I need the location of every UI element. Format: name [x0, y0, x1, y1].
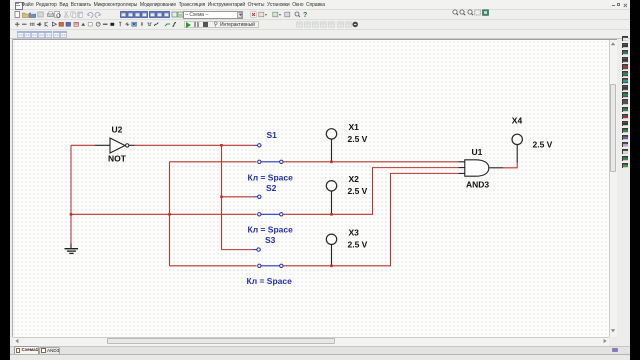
wire S3 top stub: [222, 249, 254, 251]
svg-text:U1: U1: [472, 147, 483, 157]
NOT gate U2: [110, 138, 129, 153]
svg-text:U2: U2: [112, 125, 123, 135]
svg-text:S2: S2: [266, 183, 277, 193]
probe X2: [326, 181, 336, 214]
black side bars: [0, 0, 10, 360]
pin AND output: [489, 167, 503, 169]
switch S3: [253, 248, 283, 268]
wire NOT input: [71, 144, 95, 146]
svg-text:X3: X3: [349, 227, 360, 237]
svg-text:S1: S1: [267, 130, 278, 140]
switch S2: [254, 195, 283, 216]
zoom cluster: [0, 0, 640, 1]
instruments toolbar right: [0, 0, 640, 1]
wire ground rail vertical: [70, 145, 72, 243]
status strip: [10, 354, 630, 360]
vertical scrollbar: [609, 40, 618, 338]
junction dots: [70, 144, 333, 267]
node mid rail cross: [168, 213, 171, 216]
wire S1 bottom left: [170, 161, 257, 163]
svg-text:2.5 V: 2.5 V: [348, 186, 368, 196]
wire mid vertical branch x169: [169, 162, 171, 266]
svg-text:2.5 V: 2.5 V: [348, 239, 368, 249]
pin AND in1: [459, 161, 465, 163]
switch S1: [254, 144, 283, 164]
tab 1 active: [14, 346, 39, 354]
window buttons: [612, 5, 616, 6]
wire NOT output to S1: [135, 144, 254, 146]
canvas background with dot grid: [13, 40, 609, 338]
probe X4: [512, 134, 522, 163]
ground: [65, 243, 79, 253]
svg-text:X4: X4: [512, 116, 523, 126]
svg-text:2.5 V: 2.5 V: [348, 134, 368, 144]
probe X1: [326, 129, 336, 161]
toolbar row 3: [10, 30, 630, 39]
AND gate U1: [465, 160, 489, 176]
node X2: [330, 213, 333, 216]
svg-text:2.5 V: 2.5 V: [533, 140, 553, 150]
canvas top border: [13, 39, 617, 40]
wire S2 row to AND: [283, 168, 459, 215]
svg-text:Кл = Space: Кл = Space: [248, 225, 294, 235]
wire S1 row to AND: [283, 161, 459, 163]
wire vertical branch x221: [221, 145, 223, 249]
wire ground rail horizontal: [71, 213, 257, 215]
horizontal scrollbar: [13, 337, 609, 346]
svg-text:X2: X2: [349, 174, 360, 184]
pin NOT output black: [129, 144, 135, 146]
pin NOT input black: [95, 144, 110, 146]
svg-text:S3: S3: [265, 235, 276, 245]
node ground rail left: [70, 213, 73, 216]
node X3: [330, 265, 333, 268]
tab 2: [39, 347, 60, 355]
toolbar row 1: [10, 10, 630, 20]
node X1: [330, 161, 333, 164]
svg-text:AND3: AND3: [466, 180, 489, 190]
wire S2 top stub: [222, 196, 254, 198]
probe X3: [326, 234, 336, 265]
wire S3 row to AND: [283, 173, 459, 265]
svg-text:X1: X1: [349, 122, 360, 132]
svg-text:Кл = Space: Кл = Space: [248, 173, 294, 183]
node S2 stub branch: [220, 196, 223, 199]
pin AND in3: [459, 172, 465, 174]
svg-text:NOT: NOT: [108, 154, 127, 164]
purple mini icon right: [612, 348, 618, 353]
toolbar row 2: [10, 20, 630, 30]
combo box: [183, 11, 243, 19]
svg-text:Кл = Space: Кл = Space: [247, 276, 293, 286]
tab row: [10, 346, 630, 355]
node NOT out / S1 branch: [220, 144, 223, 147]
pin AND in2: [459, 167, 465, 169]
svg-text:?: ?: [303, 12, 307, 18]
wire S3 bottom left: [170, 265, 257, 267]
wire AND output to X4: [503, 163, 517, 168]
